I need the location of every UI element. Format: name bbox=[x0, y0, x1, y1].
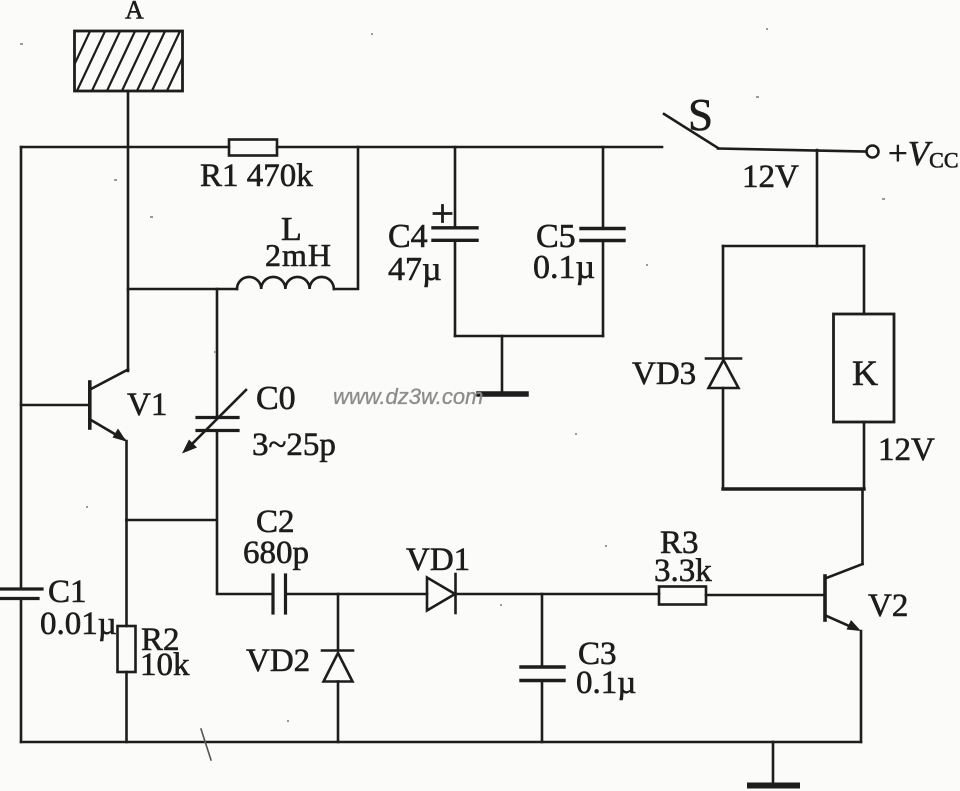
wire emitter junction to C0 branch bbox=[127, 519, 217, 522]
wire K top lead bbox=[863, 246, 866, 314]
wire C4-C5 bottom junction bbox=[455, 335, 603, 338]
wire R2 top lead bbox=[125, 520, 128, 626]
capacitor C1 bbox=[0, 574, 117, 642]
wire V2 emitter down bbox=[860, 631, 863, 742]
antenna A label bbox=[125, 0, 144, 25]
svg-text:12V: 12V bbox=[878, 432, 935, 468]
wire antenna down to V1 collector node bbox=[127, 91, 130, 371]
capacitor C4 bbox=[388, 147, 477, 336]
wire Vcc down to VD3/K junction bbox=[816, 150, 819, 246]
wire VD3/K top junction bbox=[723, 245, 864, 248]
svg-text:K: K bbox=[852, 353, 878, 393]
wire C0 bottom lead down to C2 line bbox=[217, 433, 271, 594]
svg-text:680p: 680p bbox=[243, 535, 309, 571]
wire R2 bottom lead bbox=[125, 672, 128, 742]
transistor V2 bbox=[825, 564, 908, 631]
svg-text:S: S bbox=[688, 90, 713, 140]
wire V1 emitter down bbox=[125, 441, 128, 520]
antenna block (hatched) bbox=[60, 27, 212, 95]
wire V1 base bbox=[21, 404, 88, 407]
wire C0 top lead bbox=[216, 289, 219, 415]
svg-text:2mH: 2mH bbox=[265, 237, 332, 273]
diode VD2 bbox=[246, 643, 353, 682]
wire junction down to V2 collector bbox=[861, 489, 864, 564]
svg-text:C1: C1 bbox=[48, 574, 87, 610]
svg-text:0.1µ: 0.1µ bbox=[576, 665, 636, 701]
svg-text:V2: V2 bbox=[868, 588, 908, 624]
svg-text:V1: V1 bbox=[127, 387, 167, 423]
wire L left segment bbox=[128, 288, 237, 291]
wire L right segment up to rail bbox=[334, 147, 358, 289]
resistor R1 bbox=[200, 140, 313, 195]
resistor R2 bbox=[118, 622, 191, 683]
svg-text:3~25p: 3~25p bbox=[252, 427, 336, 463]
resistor R3 bbox=[654, 525, 712, 605]
svg-text:VD2: VD2 bbox=[246, 643, 310, 679]
svg-text:R1 470k: R1 470k bbox=[200, 158, 313, 194]
svg-text:C4: C4 bbox=[388, 218, 428, 255]
wire C3 bottom lead bbox=[541, 682, 544, 742]
wire VD3/K bottom junction bbox=[723, 487, 864, 490]
scan speckles (decorative) bbox=[20, 28, 885, 722]
wire R3 to V2 base bbox=[706, 594, 823, 597]
wire left rail lower bbox=[20, 601, 23, 742]
wire bottom rail bbox=[21, 741, 861, 744]
svg-text:47µ: 47µ bbox=[388, 251, 442, 288]
stray slash mark on bottom rail bbox=[201, 729, 211, 760]
capacitor C3 bbox=[521, 636, 636, 701]
svg-text:10k: 10k bbox=[140, 647, 190, 683]
ground (C4/C5) bbox=[479, 336, 526, 394]
wire VD3 bottom lead bbox=[722, 388, 725, 489]
variable capacitor C0 bbox=[182, 380, 336, 463]
ground (main) bbox=[750, 742, 797, 786]
svg-text:A: A bbox=[125, 0, 144, 25]
terminal +Vcc bbox=[867, 134, 959, 173]
inductor L bbox=[237, 211, 334, 289]
watermark bbox=[333, 384, 483, 409]
wire VD2 top lead bbox=[337, 594, 340, 649]
svg-text:www.dz3w.com: www.dz3w.com bbox=[333, 384, 483, 409]
wire C2 to VD1 bbox=[287, 593, 427, 596]
capacitor C2 bbox=[243, 504, 309, 613]
svg-text:12V: 12V bbox=[742, 159, 799, 195]
wire switch to Vcc terminal bbox=[718, 149, 866, 152]
wire VD1 to R3 bbox=[456, 593, 660, 596]
capacitor C5 bbox=[533, 147, 624, 336]
transistor V1 bbox=[90, 370, 168, 442]
diode VD3 bbox=[632, 356, 741, 392]
svg-text:3.3k: 3.3k bbox=[654, 553, 712, 589]
svg-text:C0: C0 bbox=[256, 380, 296, 417]
wire VD2 bottom lead bbox=[337, 682, 340, 743]
diode VD1 bbox=[406, 542, 470, 613]
wire left rail upper bbox=[20, 147, 23, 587]
relay K bbox=[834, 314, 936, 468]
svg-text:+VCC: +VCC bbox=[888, 134, 959, 173]
svg-text:0.01µ: 0.01µ bbox=[40, 606, 117, 642]
svg-text:0.1µ: 0.1µ bbox=[533, 249, 595, 286]
switch S bbox=[664, 90, 799, 195]
svg-text:VD3: VD3 bbox=[632, 356, 696, 392]
svg-text:VD1: VD1 bbox=[406, 542, 470, 578]
wire K bottom lead bbox=[863, 422, 866, 489]
wire VD3 top lead bbox=[722, 246, 725, 357]
wire top rail left segment bbox=[21, 146, 229, 149]
wire top rail right of R1 bbox=[277, 146, 662, 149]
wire C3 top lead bbox=[541, 594, 544, 665]
